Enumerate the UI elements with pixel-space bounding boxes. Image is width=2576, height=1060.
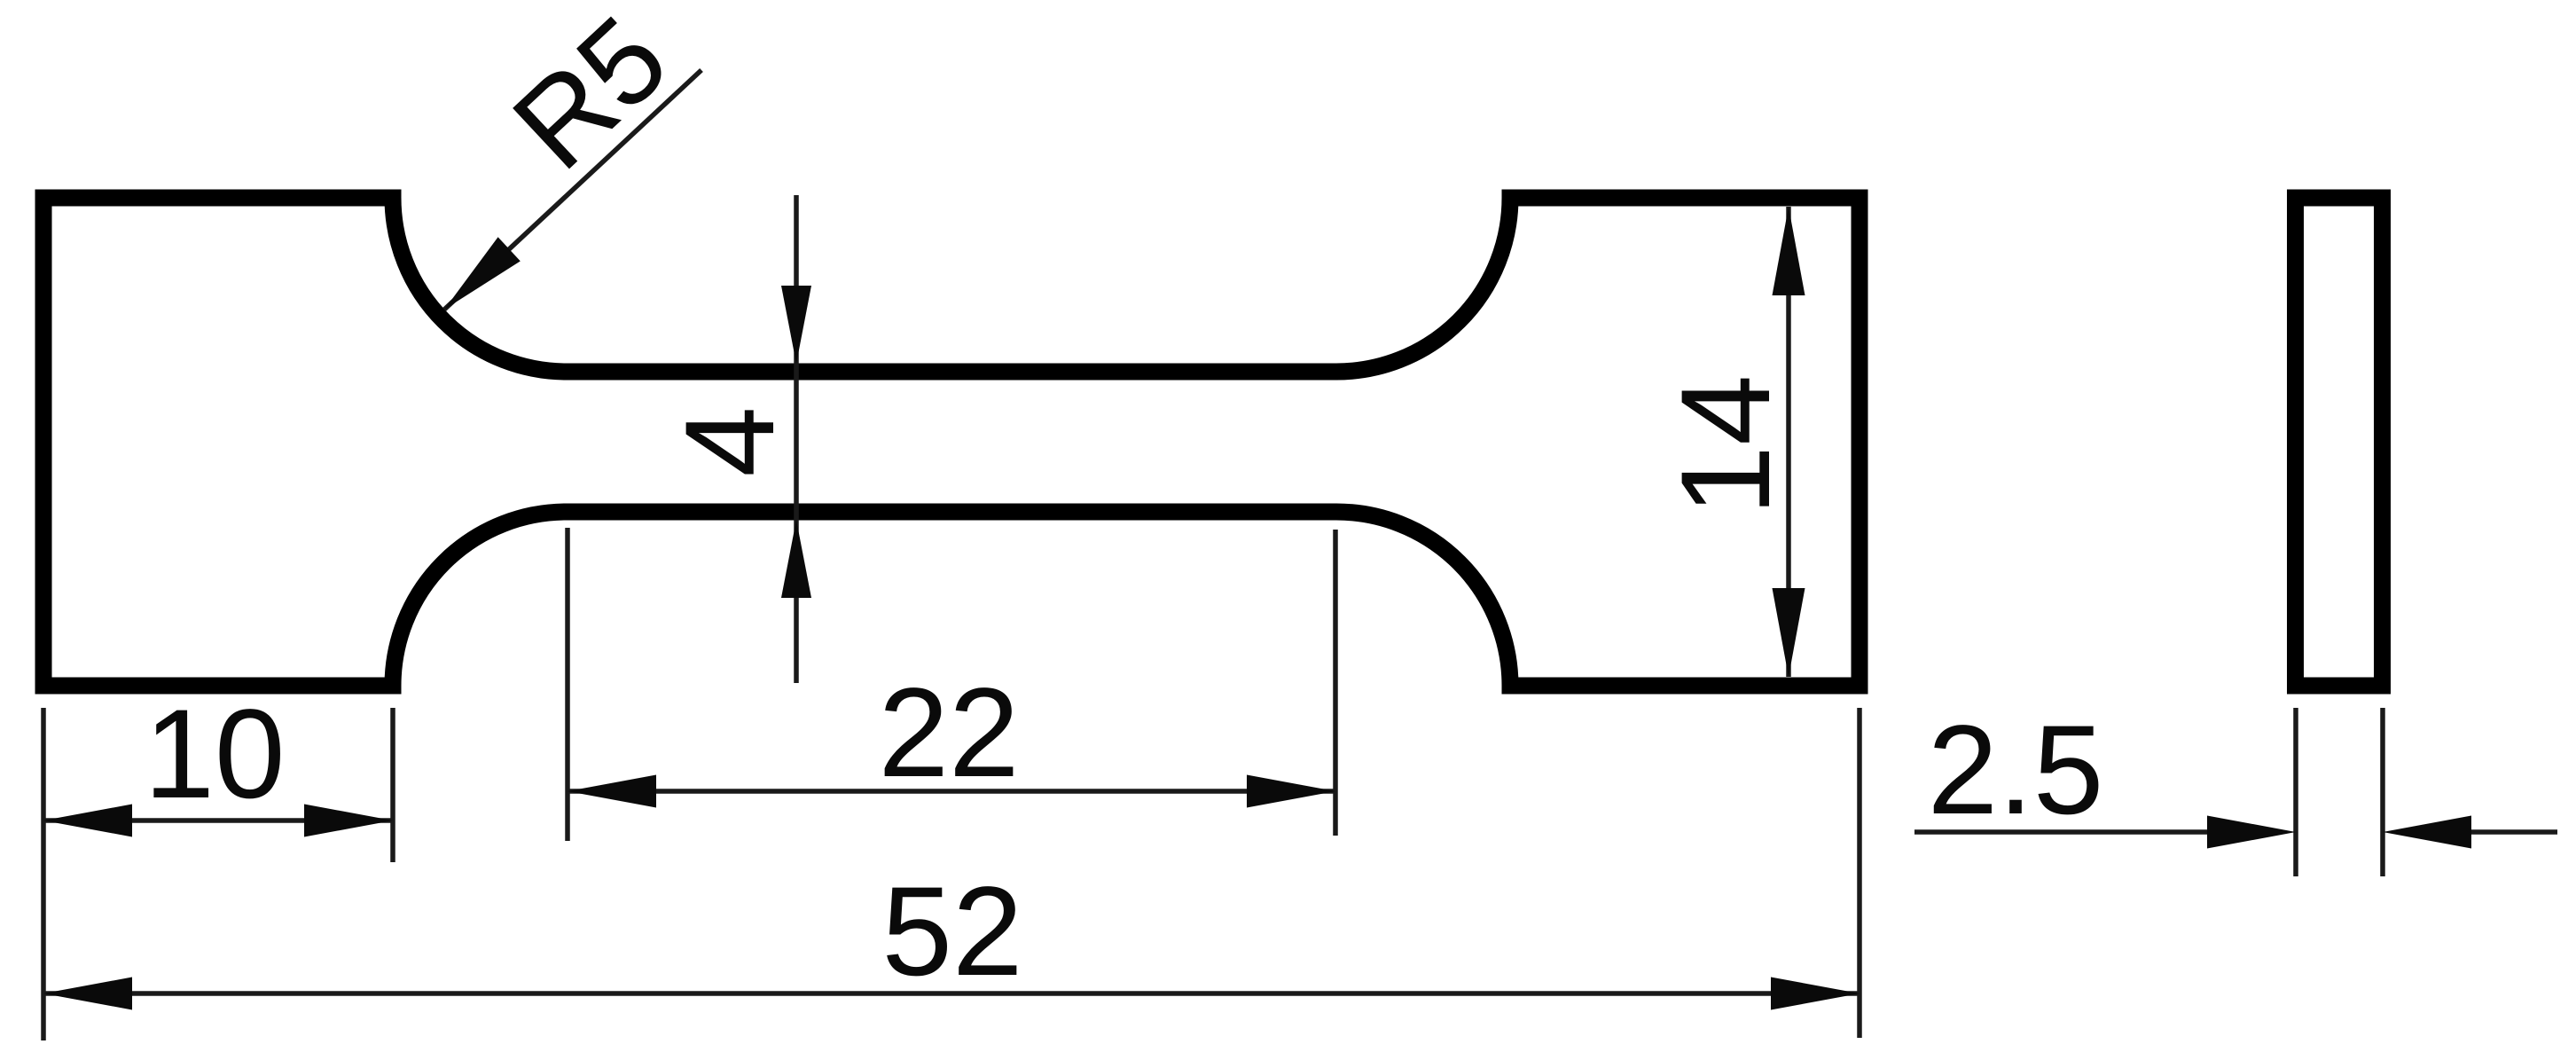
arrowhead 14 up — [1773, 207, 1805, 295]
svg-text:22: 22 — [878, 663, 1019, 804]
dimension line 14 (vertical in right grip) — [1786, 207, 1791, 677]
arrowhead 2.5 right (pointing left) — [2383, 816, 2471, 849]
svg-text:2.5: 2.5 — [1928, 700, 2104, 841]
arrowhead 52 right — [1771, 978, 1860, 1010]
extension line at x=2687 (dim 2.5) — [2380, 708, 2385, 876]
dimension line 22 — [568, 789, 1335, 794]
arrowhead 10 left — [43, 805, 132, 837]
dimension line 10 — [43, 818, 393, 823]
arrowhead 2.5 left (pointing right) — [2207, 816, 2296, 849]
dimension line 52 — [43, 991, 1860, 996]
extension line at x=443 (dim 10) — [390, 708, 395, 862]
arrowhead R5 — [444, 237, 521, 310]
arrowhead 52 left — [43, 978, 132, 1010]
arrowhead 14 down — [1773, 588, 1805, 677]
arrowhead 22 left — [568, 775, 656, 808]
extension line at x=2589 (dim 2.5) — [2293, 708, 2298, 876]
dimension line 2.5 right tail — [2471, 829, 2557, 835]
dimension line 2.5 left tail — [1914, 829, 2207, 835]
dimension line 4 (vertical through neck) — [794, 195, 799, 683]
arrowhead 4 up (below neck) — [781, 520, 811, 598]
specimen outline (front view) — [43, 198, 1860, 686]
svg-text:14: 14 — [1656, 374, 1797, 515]
extension line left (shared by dim 10 and dim 52) — [41, 708, 46, 1040]
arrowhead 4 down (above neck) — [781, 286, 811, 364]
arrowhead 22 right — [1247, 775, 1335, 808]
svg-text:10: 10 — [144, 684, 285, 825]
side view rectangle — [2296, 198, 2383, 686]
leader line R5 — [444, 70, 701, 310]
extension line at x=2097 (dim 52) — [1857, 708, 1862, 1038]
arrowhead 10 right — [304, 805, 393, 837]
extension line at x=640 (dim 22) — [565, 528, 570, 841]
svg-text:4: 4 — [660, 406, 801, 477]
svg-text:52: 52 — [881, 861, 1022, 1002]
extension line at x=1506 (dim 22) — [1333, 530, 1338, 836]
